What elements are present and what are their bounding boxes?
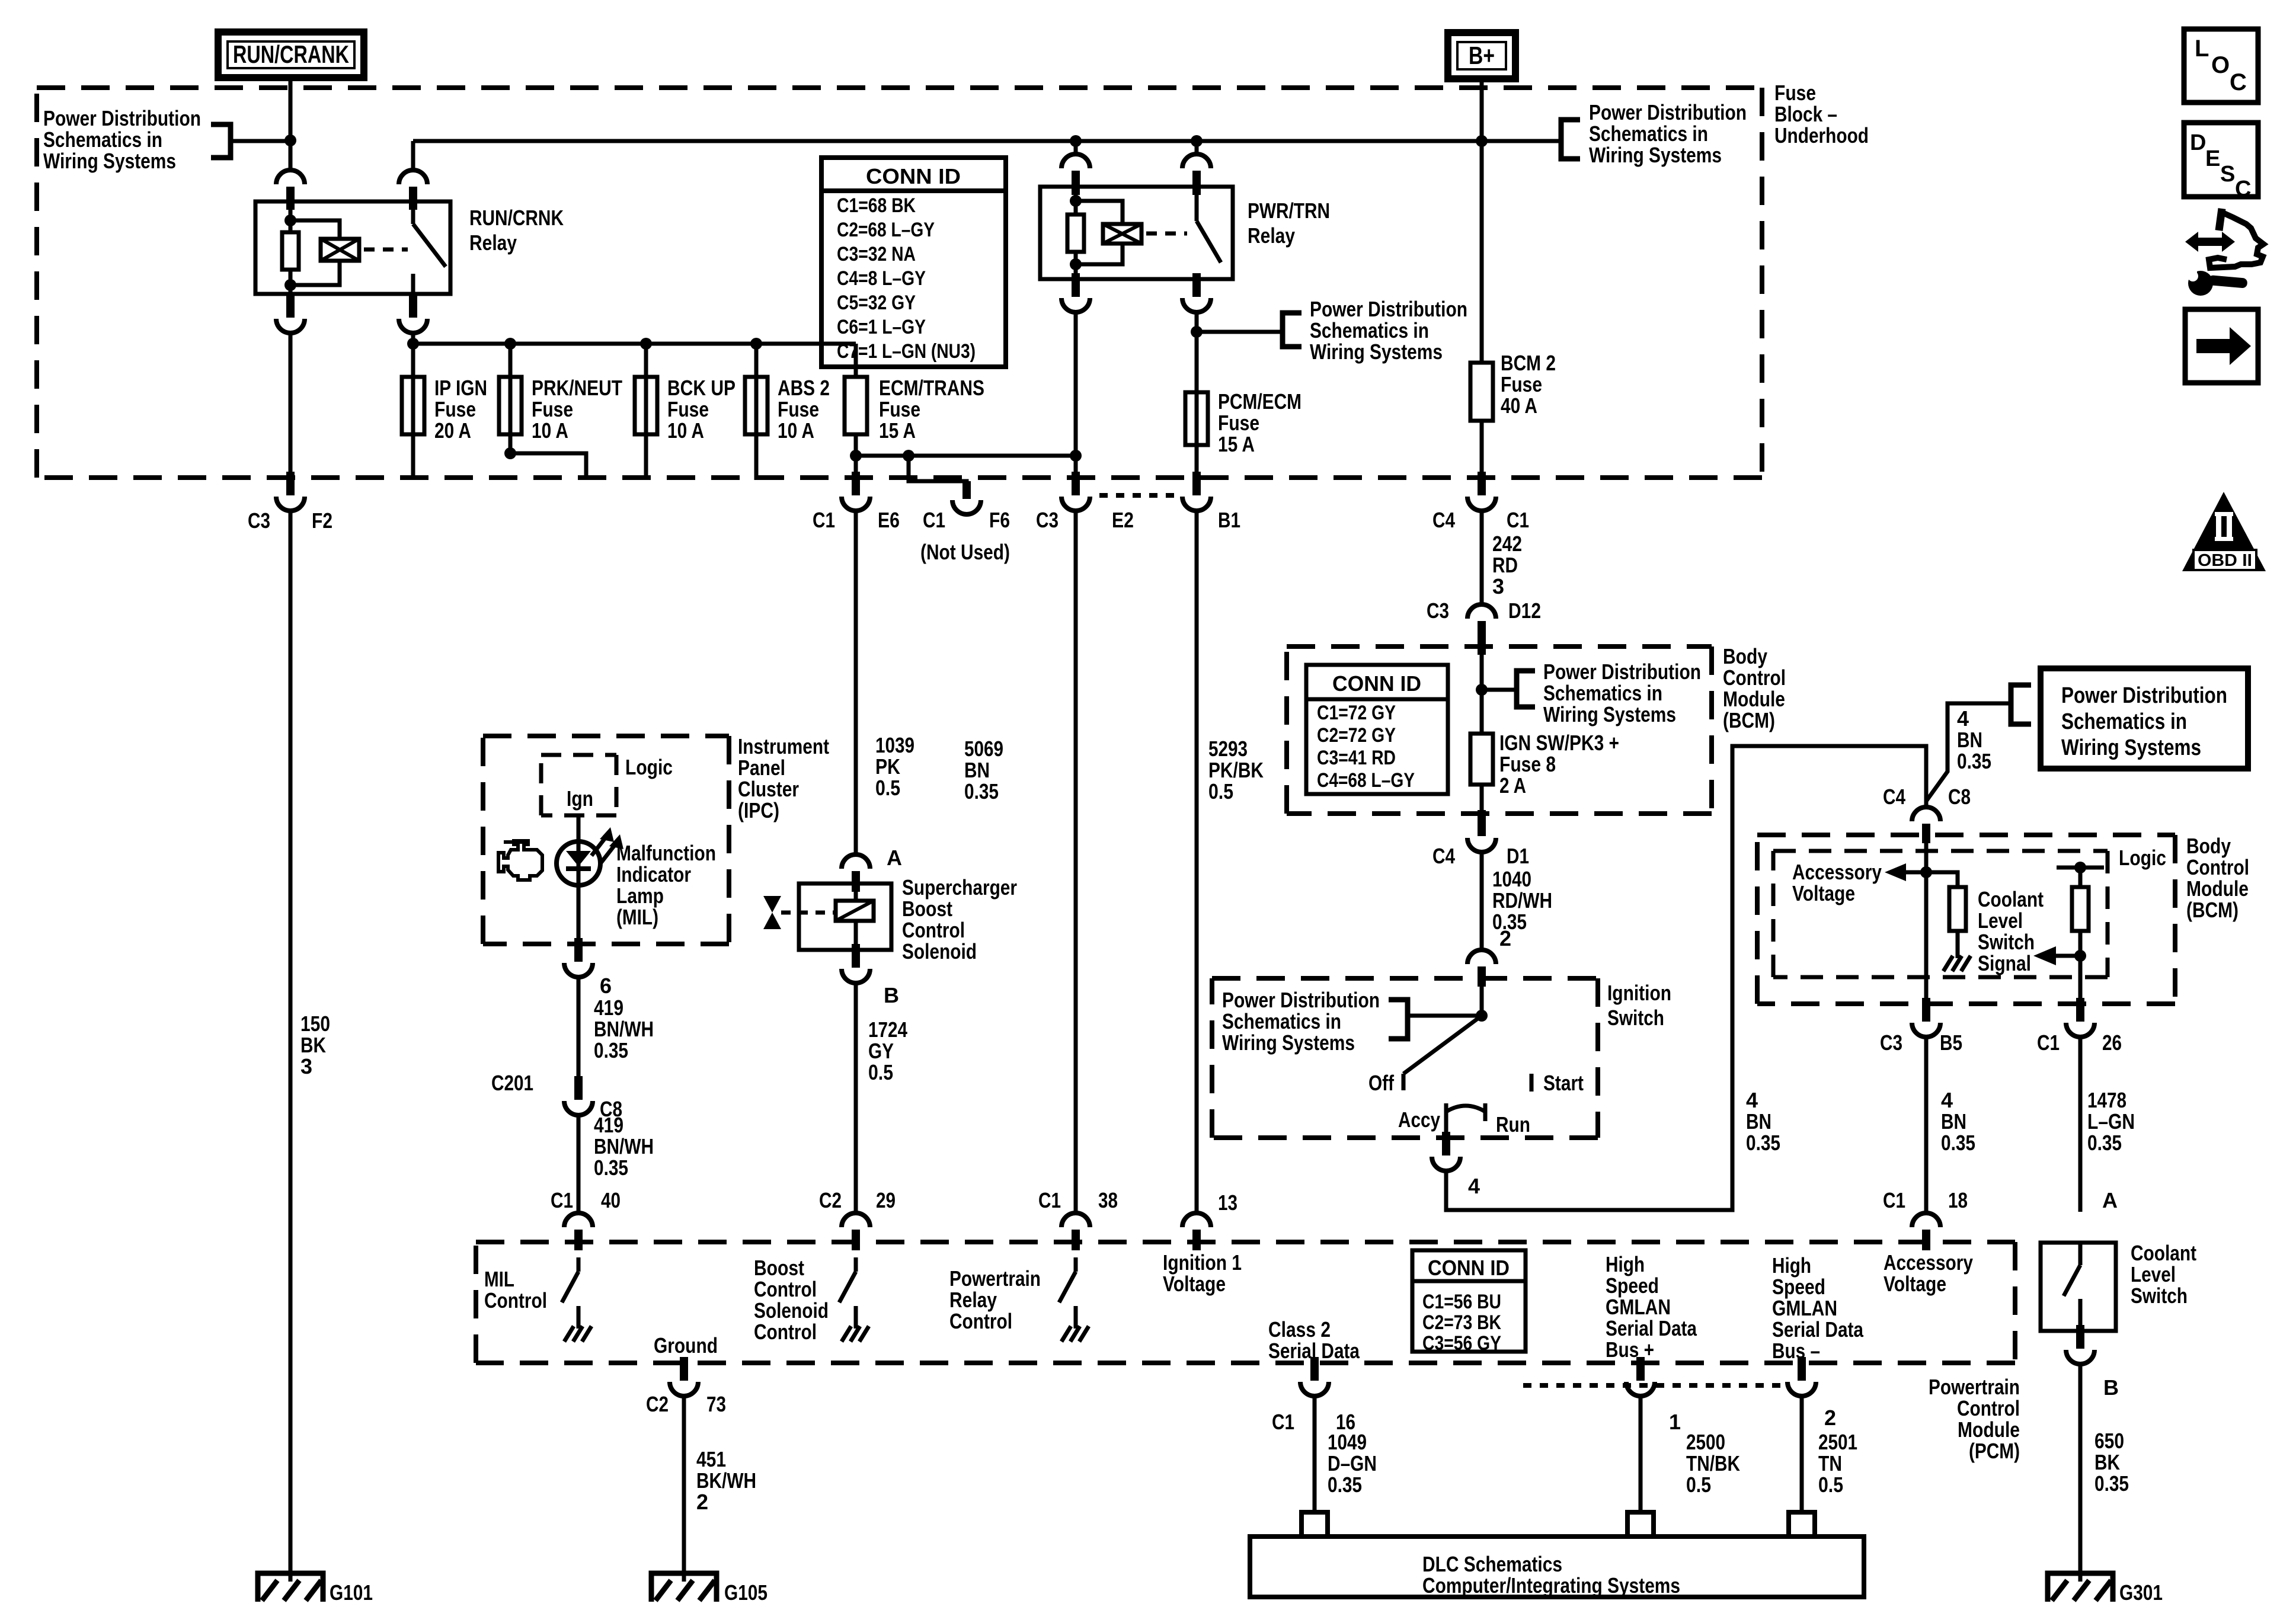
svg-text:Lamp: Lamp <box>616 884 664 908</box>
lamp MIL LED cathode bar <box>566 866 591 871</box>
ground G105 <box>651 1571 717 1602</box>
label Body Control Module BCM (right) <box>2186 834 2249 922</box>
connector relay K2 pin 85 <box>1061 273 1090 312</box>
table CONN ID (PCM) <box>1412 1250 1526 1355</box>
svg-text:Ign: Ign <box>567 786 593 811</box>
label IP IGN Fuse 20 A <box>434 376 487 443</box>
label Powertrain Relay Control <box>949 1266 1041 1333</box>
svg-text:C1: C1 <box>1038 1188 1061 1212</box>
logic inner dashed box (BCM right) <box>1773 851 2108 977</box>
svg-text:150: 150 <box>300 1012 330 1036</box>
svg-text:0.35: 0.35 <box>594 1156 628 1180</box>
svg-text:E2: E2 <box>1112 508 1134 532</box>
label (Not Used) <box>920 540 1010 564</box>
svg-text:G301: G301 <box>2119 1580 2163 1605</box>
dotted connector link PCM C1 (bottom) <box>1523 1383 1787 1388</box>
svg-text:2: 2 <box>696 1490 708 1514</box>
svg-text:C4: C4 <box>1883 785 1905 809</box>
dashed actuator link RUN/CRNK <box>364 248 408 252</box>
wire to pull resistor <box>1926 872 1958 887</box>
switch powertrain relay driver <box>1059 1257 1076 1302</box>
svg-text:242: 242 <box>1492 532 1522 556</box>
connector C1/F6 (not used) <box>952 481 981 514</box>
svg-text:L: L <box>2195 36 2209 62</box>
svg-text:Powertrain: Powertrain <box>949 1266 1041 1291</box>
wire bus to PWR/TRN switch <box>1195 141 1199 154</box>
resistor BCM coolant signal <box>2072 887 2089 931</box>
icon vehicle/wrench <box>2185 209 2263 296</box>
svg-text:15 A: 15 A <box>1218 432 1255 456</box>
svg-text:C2=73 BK: C2=73 BK <box>1422 1311 1501 1334</box>
node B+ junction <box>1476 135 1488 147</box>
svg-text:0.5: 0.5 <box>1818 1473 1843 1497</box>
label wire 150 BK 3 <box>300 1012 330 1078</box>
svg-text:20 A: 20 A <box>434 418 471 443</box>
label pin 4 <box>1468 1174 1480 1198</box>
note Power Distribution Schematics (ignition) <box>1222 988 1380 1055</box>
label F2 <box>312 508 332 533</box>
ground G101 <box>258 1571 323 1602</box>
label C201 <box>491 1071 533 1095</box>
svg-text:0.5: 0.5 <box>868 1060 893 1084</box>
connector C3/B5 <box>1912 998 1940 1037</box>
svg-text:C2: C2 <box>819 1188 842 1212</box>
svg-text:Signal: Signal <box>1978 951 2031 975</box>
wire fuse feeder bus <box>413 342 856 346</box>
wire ignition output 4 <box>1444 1120 1448 1133</box>
svg-text:C4=68 L–GY: C4=68 L–GY <box>1317 769 1415 792</box>
label C3 (left of B5) <box>1880 1030 1902 1055</box>
svg-text:2: 2 <box>1824 1406 1836 1430</box>
svg-text:Cluster: Cluster <box>738 777 799 801</box>
svg-text:40 A: 40 A <box>1501 393 1537 418</box>
connector C1/16 (class 2) <box>1300 1357 1329 1396</box>
label wire 650 BK 0.35 <box>2094 1429 2129 1496</box>
svg-text:C201: C201 <box>491 1071 533 1095</box>
svg-text:Logic: Logic <box>2119 846 2166 870</box>
label Fuse Block - Underhood <box>1774 81 1869 148</box>
svg-text:4: 4 <box>1468 1174 1480 1198</box>
svg-text:0.5: 0.5 <box>1686 1473 1711 1497</box>
wire coolant signal arrow <box>2055 954 2080 958</box>
wire to BCM bracket <box>1482 688 1517 692</box>
label pin 6 <box>600 974 612 998</box>
switch Accy-Run contact arc <box>1446 1103 1485 1121</box>
svg-text:C6=1 L–GY: C6=1 L–GY <box>837 316 926 338</box>
wire IP IGN fuse leads <box>411 344 415 480</box>
label E2 <box>1112 508 1134 532</box>
label Ign <box>567 786 593 811</box>
label Coolant Level Switch Signal <box>1978 887 2044 975</box>
connector C1/38 (powertrain relay) <box>1061 1213 1090 1250</box>
svg-text:Supercharger: Supercharger <box>902 875 1017 900</box>
svg-text:BN: BN <box>1957 728 1982 752</box>
svg-text:Boost: Boost <box>902 897 952 921</box>
node E2 feed <box>1070 450 1082 462</box>
svg-text:C3=56 GY: C3=56 GY <box>1422 1332 1501 1355</box>
svg-text:Fuse: Fuse <box>1774 81 1816 105</box>
svg-text:451: 451 <box>696 1447 726 1471</box>
label wire 2501 TN 0.5 <box>1818 1430 1857 1497</box>
icon engine (MIL) <box>498 841 542 880</box>
svg-text:Wiring Systems: Wiring Systems <box>43 149 176 173</box>
svg-text:Power Distribution: Power Distribution <box>2061 683 2227 708</box>
wire 1039 PK <box>854 510 858 853</box>
label C1 (left of E6) <box>813 508 835 532</box>
svg-text:A: A <box>887 846 902 870</box>
node PWR/TRN coil bottom <box>1070 258 1082 270</box>
label wire 4 BN 0.35 (riser) <box>1957 706 1991 773</box>
ground boost driver <box>842 1317 869 1342</box>
svg-text:0.35: 0.35 <box>1957 749 1991 773</box>
ground G301 <box>2048 1571 2113 1602</box>
module DLC box <box>1250 1537 1864 1597</box>
label C1 (left of 26) <box>2037 1030 2060 1055</box>
svg-text:Serial Data: Serial Data <box>1606 1316 1697 1340</box>
resistor PWR/TRN internal <box>1067 215 1084 252</box>
svg-text:B: B <box>884 983 899 1007</box>
label Supercharger Boost Control Solenoid <box>902 875 1017 964</box>
label C3 (left of D12) <box>1427 598 1449 623</box>
label wire 4 BN 0.35 (B5 run) <box>1941 1088 1975 1155</box>
svg-text:D12: D12 <box>1508 598 1541 623</box>
label 1 (bus+) <box>1669 1410 1681 1434</box>
svg-text:Power Distribution: Power Distribution <box>1543 660 1701 684</box>
label 29 <box>876 1188 896 1212</box>
connector relay K1 pin 87 (bottom right) <box>399 294 427 333</box>
svg-text:Underhood: Underhood <box>1774 123 1869 148</box>
svg-text:IP IGN: IP IGN <box>434 376 487 400</box>
svg-text:2500: 2500 <box>1686 1430 1725 1454</box>
svg-text:Coolant: Coolant <box>2131 1241 2196 1265</box>
wire RUN/CRANK to relay coil <box>289 78 293 170</box>
svg-text:Body: Body <box>1723 644 1767 668</box>
svg-text:Schematics in: Schematics in <box>43 127 162 152</box>
fuse block - underhood dashed outline <box>37 88 1762 478</box>
label C1 (pin 16) <box>1272 1410 1294 1434</box>
terminal fork DLC pin (class 2) <box>1302 1512 1328 1537</box>
module BCM middle dashed box <box>1287 646 1712 814</box>
label wire 1039 PK 0.5 <box>875 733 914 800</box>
svg-text:Power Distribution: Power Distribution <box>1310 297 1467 321</box>
switch ignition dashed box <box>1212 978 1598 1138</box>
svg-text:CONN ID: CONN ID <box>1428 1256 1510 1280</box>
wire 650 BK <box>2078 1363 2083 1573</box>
svg-text:TN: TN <box>1818 1451 1842 1475</box>
svg-text:CONN ID: CONN ID <box>1332 671 1421 696</box>
label Ignition 1 Voltage <box>1163 1250 1242 1296</box>
svg-text:Serial Data: Serial Data <box>1772 1317 1864 1342</box>
svg-text:Schematics in: Schematics in <box>1222 1009 1341 1033</box>
component supercharger boost solenoid box <box>799 884 891 950</box>
label Accessory Voltage (BCM) <box>1792 860 1882 905</box>
label Coolant Level Switch <box>2131 1241 2196 1308</box>
node PRK/NEUT jog <box>504 447 516 459</box>
component coolant level switch box <box>2041 1243 2116 1331</box>
bracket middle power distribution <box>1283 313 1302 347</box>
svg-text:1049: 1049 <box>1328 1430 1367 1454</box>
svg-text:Module: Module <box>1723 687 1785 711</box>
wire relay coil parallel top link <box>290 220 340 239</box>
connector relay K1 pin 30 (top right) <box>399 170 427 210</box>
wire coolant signal <box>2078 868 2083 1004</box>
svg-text:CONN ID: CONN ID <box>866 164 961 188</box>
svg-text:PK: PK <box>875 754 900 779</box>
node PWR/TRN coil top <box>1070 195 1082 207</box>
wire relay switch out to fuse bus <box>411 332 415 345</box>
svg-text:Boost: Boost <box>754 1256 804 1280</box>
node to power distribution ref <box>1191 326 1203 338</box>
wire 4 BN (B5 to PCM 18) <box>1924 1036 1929 1212</box>
wire relay coil to C3/F2 <box>289 332 293 474</box>
connector C4/D1 <box>1467 810 1496 852</box>
note Power Distribution Schematics (middle) <box>1310 297 1467 364</box>
connector B1 <box>1182 472 1211 511</box>
svg-text:Coolant: Coolant <box>1978 887 2044 911</box>
label 18 <box>1948 1188 1968 1212</box>
wire 1049 D-GN <box>1313 1395 1317 1512</box>
connector C2/73 (ground) <box>670 1357 698 1396</box>
svg-text:GY: GY <box>868 1039 894 1063</box>
svg-text:PK/BK: PK/BK <box>1208 758 1264 782</box>
connector C2/29 (boost) <box>842 1213 870 1250</box>
connector ignition switch pin 2 <box>1467 950 1496 987</box>
svg-text:C1: C1 <box>923 508 945 532</box>
label Run <box>1496 1112 1530 1137</box>
svg-text:A: A <box>2102 1188 2118 1212</box>
svg-text:73: 73 <box>706 1392 726 1416</box>
svg-text:Level: Level <box>2131 1262 2176 1286</box>
switch powertrain fixed contact <box>1074 1306 1078 1317</box>
node ignition switch common <box>1476 1010 1488 1022</box>
ground powertrain driver <box>1061 1317 1089 1342</box>
svg-text:RD: RD <box>1492 553 1518 577</box>
connector ignition pin 4 <box>1432 1132 1460 1171</box>
label ECM/TRANS Fuse 15 A <box>879 376 984 443</box>
label B1 <box>1218 508 1240 532</box>
switch position Start tick <box>1530 1074 1534 1092</box>
svg-text:0.35: 0.35 <box>964 779 999 804</box>
svg-text:1478: 1478 <box>2087 1088 2126 1112</box>
connector relay K2 pin 30 <box>1182 154 1211 195</box>
svg-text:(IPC): (IPC) <box>738 798 779 822</box>
label A (coolant switch) <box>2102 1188 2118 1212</box>
svg-text:C1: C1 <box>1272 1410 1294 1434</box>
connector relay K1 pin 86 (top left) <box>276 170 305 210</box>
wire accessory voltage arrow <box>1905 870 1926 875</box>
label wire 1478 L-GN 0.35 <box>2087 1088 2135 1155</box>
svg-text:18: 18 <box>1948 1188 1968 1212</box>
label wire 5293 PK/BK 0.5 <box>1208 737 1264 804</box>
switch MIL control driver <box>562 1257 578 1302</box>
valve symbol (bowtie) <box>763 896 781 929</box>
svg-text:5069: 5069 <box>964 737 1003 761</box>
svg-text:F6: F6 <box>989 508 1010 532</box>
svg-text:C4=8 L–GY: C4=8 L–GY <box>837 267 926 290</box>
svg-text:B: B <box>2103 1375 2119 1400</box>
wire 419 BN/WH upper <box>577 976 581 1083</box>
svg-text:RUN/CRANK: RUN/CRANK <box>233 40 349 68</box>
svg-text:PWR/TRN: PWR/TRN <box>1248 199 1330 223</box>
wire PWR/TRN coil parallel top link <box>1076 201 1123 224</box>
wire resistor to ground <box>1956 931 1960 946</box>
resistor relay RUN/CRNK internal <box>282 232 299 270</box>
module BCM right dashed box <box>1757 835 2175 1004</box>
label Logic (IPC) <box>625 755 673 779</box>
label PWR/TRN Relay <box>1248 199 1330 248</box>
node BCM power ref <box>1476 684 1488 696</box>
svg-text:E6: E6 <box>878 508 900 532</box>
dashed actuator link PWR/TRN <box>1146 232 1187 236</box>
svg-text:2501: 2501 <box>1818 1430 1857 1454</box>
label 73 <box>706 1392 726 1416</box>
wire 2500 TN/BK <box>1639 1395 1643 1512</box>
svg-text:BCK UP: BCK UP <box>667 376 736 400</box>
label C4 (left of D1) <box>1432 844 1455 868</box>
table CONN ID (fuse block) <box>821 158 1006 367</box>
note box Power Distribution Schematics (right) <box>2041 668 2248 769</box>
label Malfunction Indicator Lamp MIL <box>616 841 716 929</box>
switch position Off tick <box>1402 1074 1406 1090</box>
svg-text:Voltage: Voltage <box>1792 881 1855 905</box>
label BCK UP Fuse 10 A <box>667 376 736 443</box>
icon DESC box <box>2184 123 2258 201</box>
label Ground <box>654 1333 718 1358</box>
wire PRK/NEUT fuse leads <box>510 344 586 478</box>
svg-text:Schematics in: Schematics in <box>2061 709 2187 734</box>
svg-text:10 A: 10 A <box>667 418 704 443</box>
svg-text:D–GN: D–GN <box>1328 1451 1377 1475</box>
svg-text:C8: C8 <box>1948 785 1971 809</box>
lamp MIL LED circle <box>557 841 600 885</box>
fuse IGN SW/PK3+ Fuse 8 2A <box>1470 734 1493 785</box>
wire 2501 TN <box>1800 1395 1804 1512</box>
node feeder at IP IGN <box>407 338 419 350</box>
node feeder at ABS 2 <box>750 338 762 350</box>
note Power Distribution Schematics (BCM) <box>1543 660 1701 726</box>
coil PWR/TRN relay (X-box) <box>1103 224 1141 244</box>
label ABS 2 Fuse 10 A <box>778 376 830 443</box>
label wire 1040 RD/WH 0.35 <box>1492 867 1552 934</box>
svg-text:C2=68 L–GY: C2=68 L–GY <box>837 219 935 241</box>
wire Ign to MIL lamp <box>577 815 581 945</box>
label IGN SW/PK3 + Fuse 8 2 A <box>1499 731 1619 798</box>
label 38 <box>1098 1188 1118 1212</box>
connector IPC pin 6 <box>564 938 593 977</box>
svg-text:B1: B1 <box>1218 508 1240 532</box>
svg-text:BN: BN <box>1746 1109 1771 1134</box>
svg-text:Power Distribution: Power Distribution <box>43 106 201 130</box>
dashed valve link <box>781 911 834 915</box>
svg-text:Panel: Panel <box>738 756 785 780</box>
svg-text:4: 4 <box>1941 1088 1953 1112</box>
svg-text:Computer/Integrating Systems: Computer/Integrating Systems <box>1422 1573 1680 1598</box>
wire 1478 L-GN <box>2078 1036 2083 1212</box>
wire 1724 GY <box>854 982 858 1212</box>
svg-text:0.35: 0.35 <box>594 1038 628 1062</box>
relay RUN/CRNK coil wire <box>289 201 293 294</box>
relay RUN/CRNK box <box>255 201 450 294</box>
label C1 (pin 40) <box>551 1188 573 1212</box>
svg-text:Start: Start <box>1543 1071 1584 1095</box>
label C4 (left) <box>1432 508 1455 532</box>
label F6 <box>989 508 1010 532</box>
svg-text:C3=32 NA: C3=32 NA <box>837 243 916 265</box>
label G101 <box>330 1580 373 1605</box>
svg-text:C3: C3 <box>1036 508 1059 532</box>
wire 4 BN riser to power distribution <box>1926 703 2011 801</box>
switch MIL fixed contact <box>577 1306 581 1317</box>
label B (solenoid) <box>884 983 899 1007</box>
connector C1/18 (accessory voltage) <box>1912 1213 1940 1250</box>
bracket to note (top right) <box>1561 120 1580 159</box>
icon indicator flash arrows <box>591 827 623 863</box>
svg-text:2: 2 <box>1499 926 1511 950</box>
coil RUN/CRNK relay (X-box) <box>321 239 359 261</box>
label A (solenoid) <box>887 846 902 870</box>
ground BCM internal <box>1943 946 1971 971</box>
connector solenoid pin B <box>842 944 870 983</box>
svg-text:(BCM): (BCM) <box>2186 898 2239 922</box>
label Off <box>1368 1071 1395 1095</box>
svg-text:Class 2: Class 2 <box>1268 1317 1331 1342</box>
label wire 1049 D-GN 0.35 <box>1328 1430 1377 1497</box>
svg-text:BK/WH: BK/WH <box>696 1468 756 1493</box>
node relay coil bottom <box>284 279 296 291</box>
label C1 (pin 18) <box>1883 1188 1905 1212</box>
svg-text:Ignition 1: Ignition 1 <box>1163 1250 1242 1275</box>
svg-text:Fuse: Fuse <box>434 397 476 421</box>
switch blade ignition (to Off) <box>1403 1016 1482 1074</box>
svg-text:Bus –: Bus – <box>1772 1339 1820 1363</box>
wire 242 RD <box>1480 510 1484 603</box>
svg-text:Power Distribution: Power Distribution <box>1222 988 1380 1012</box>
label Ignition Switch <box>1607 981 1671 1030</box>
coil solenoid (slash-box) <box>836 901 874 921</box>
icon OBD II triangle <box>2182 492 2266 571</box>
wire bracket to RUN/CRANK node <box>231 139 290 143</box>
label PCM/ECM Fuse 15 A <box>1218 389 1302 456</box>
label Logic (BCM right) <box>2119 846 2166 870</box>
connector relay K2 pin 87 <box>1182 273 1211 312</box>
svg-text:Wiring Systems: Wiring Systems <box>1310 340 1443 364</box>
svg-text:29: 29 <box>876 1188 896 1212</box>
node PWR/TRN switch pin junction <box>1191 135 1203 147</box>
fuse PCM/ECM 15A <box>1185 392 1208 445</box>
svg-text:2 A: 2 A <box>1499 773 1526 798</box>
wire solenoid internal <box>854 884 858 950</box>
relay PWR/TRN coil wire <box>1074 187 1078 279</box>
svg-text:PCM/ECM: PCM/ECM <box>1218 389 1302 414</box>
svg-text:BCM 2: BCM 2 <box>1501 351 1556 375</box>
wire B+ bus <box>413 139 1561 143</box>
arrowhead coolant signal <box>2033 946 2056 965</box>
svg-text:15 A: 15 A <box>879 418 916 443</box>
svg-text:1039: 1039 <box>875 733 914 757</box>
label Accy <box>1398 1108 1440 1132</box>
svg-text:(MIL): (MIL) <box>616 905 658 929</box>
connector 2 (GMLAN bus-) <box>1787 1357 1816 1396</box>
note Power Distribution Schematics (top right) <box>1589 100 1747 167</box>
svg-text:Solenoid: Solenoid <box>754 1298 829 1323</box>
svg-text:Body: Body <box>2186 834 2231 858</box>
svg-text:Block –: Block – <box>1774 102 1837 126</box>
label wire 4 BN 0.35 (left run) <box>1746 1088 1780 1155</box>
wire PWR/TRN switch out <box>1195 311 1199 474</box>
label C3 (left of E2) <box>1036 508 1059 532</box>
fuse BCM 2 40A <box>1470 363 1493 421</box>
label E6 <box>878 508 900 532</box>
